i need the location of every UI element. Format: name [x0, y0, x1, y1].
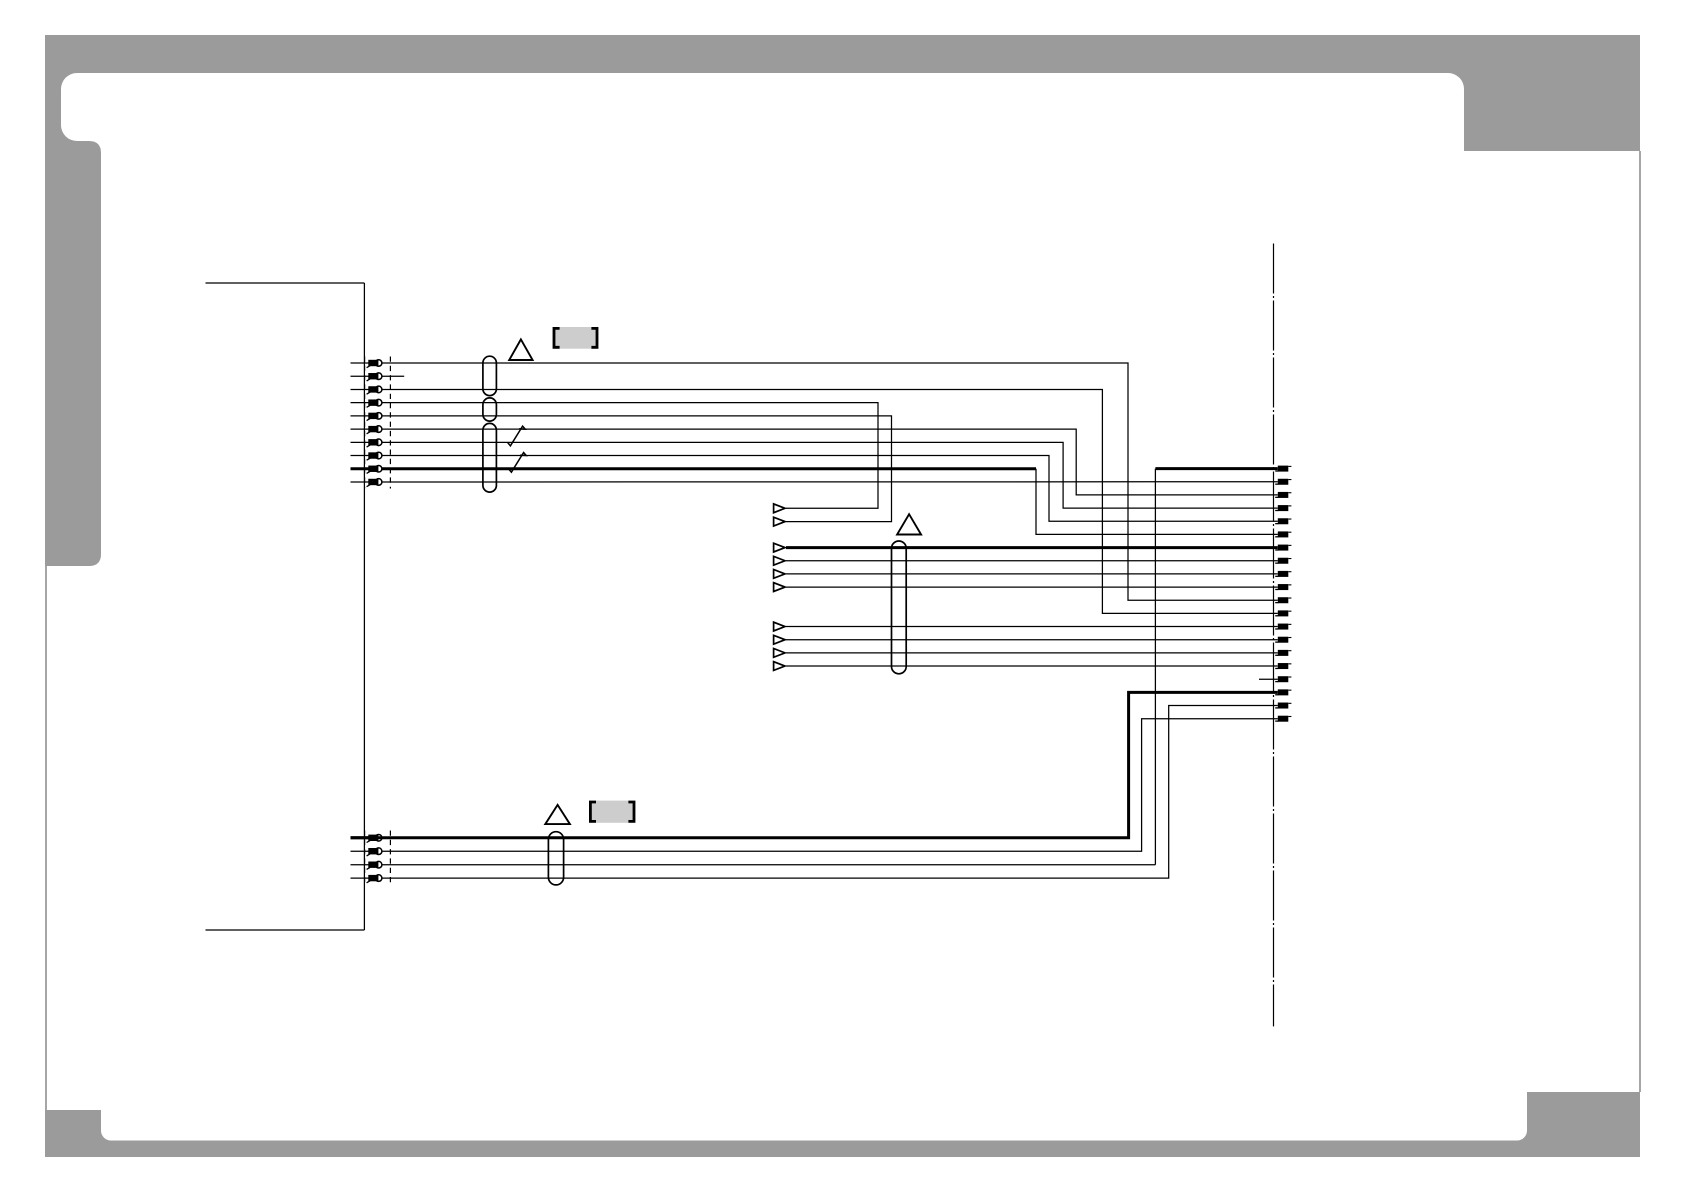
- wire A3 to J1: [786, 546, 1278, 549]
- wire CN1-9 to J1-6: [1036, 469, 1278, 535]
- connector CN1 pin 1: [351, 362, 369, 364]
- tie mark M2: [509, 453, 527, 473]
- connector CN2 dashed boundary right: [389, 831, 391, 886]
- cable bundle tie O2: [483, 398, 497, 421]
- connector CN1 dashed boundary left: [364, 357, 366, 489]
- arrow A8: [774, 635, 785, 644]
- cable bundle tie O4: [892, 541, 907, 674]
- connector CN2 pin 2: [351, 850, 369, 852]
- page frame bottom bar: [45, 1141, 1640, 1158]
- page frame left thin rule: [45, 566, 47, 1110]
- arrow A6: [774, 583, 785, 592]
- cable bundle tie O5: [548, 832, 563, 885]
- page frame top-right block: [1464, 73, 1640, 151]
- wire A4 to J1: [786, 560, 1278, 562]
- page frame left bar: [45, 73, 61, 141]
- connector CN2 pin 3: [351, 864, 369, 866]
- connector J1 pin 6: [1278, 531, 1289, 537]
- tie mark M1: [508, 426, 526, 446]
- board outline bottom edge: [206, 929, 365, 931]
- connector CN1 pin 4: [351, 402, 369, 404]
- connector J1 pin 20: [1278, 716, 1289, 722]
- warning triangle W1: [509, 339, 532, 360]
- wire J1-20 to CN2-2: [382, 719, 1278, 852]
- arrow A2: [774, 517, 785, 526]
- board outline right edge: [363, 283, 365, 930]
- board outline top edge: [206, 282, 365, 284]
- connector CN1 pin 3: [351, 388, 369, 390]
- warning triangle W3: [545, 805, 570, 824]
- connector J1 pin 18: [1278, 689, 1289, 695]
- wire J1-1 bold stub: [1155, 467, 1277, 470]
- arrow A7: [774, 622, 785, 631]
- wire CN1-3 to J1-12: [382, 389, 1278, 613]
- wire J1-19 to CN2-4: [382, 706, 1278, 879]
- wire CN1-5 to arrow A2: [382, 416, 892, 522]
- connector CN1 pin 8: [351, 455, 369, 457]
- wire J1-17 stub: [1259, 678, 1278, 680]
- wire CN1-1 to J1-11: [382, 363, 1278, 600]
- connector CN1 pin 10: [351, 481, 369, 483]
- connector J1 pin 13: [1278, 624, 1289, 630]
- wire J1-18 to CN2-1 bold: [351, 692, 1278, 837]
- arrow A9: [774, 648, 785, 657]
- connector J1 pin 2: [1278, 479, 1289, 485]
- cable bundle tie O1: [483, 356, 497, 395]
- connector CN2 pin 1: [351, 836, 369, 839]
- wire A6 to J1: [786, 586, 1278, 588]
- connector J1 pin 14: [1278, 637, 1289, 643]
- connector CN1 pin 5: [351, 415, 369, 417]
- connector J1 pin 12: [1278, 610, 1289, 616]
- connector J1 pin 9: [1278, 571, 1289, 577]
- wire CN1-2 no-connect stub: [382, 375, 405, 377]
- page frame bottom-left block: [45, 1110, 101, 1157]
- wire A5 to J1: [786, 573, 1278, 575]
- connector J1 pin 3: [1278, 492, 1289, 498]
- connector J1 pin 15: [1278, 650, 1289, 656]
- wire CN1-9 bold run: [382, 467, 1036, 470]
- arrow A5: [774, 570, 785, 579]
- connector J1 pin 16: [1278, 663, 1289, 669]
- wire CN1-8 to J1-5: [382, 456, 1278, 522]
- connector J1 pin 10: [1278, 584, 1289, 590]
- label box L1: [553, 327, 599, 349]
- arrow A10: [774, 662, 785, 671]
- wire CN1-7 to J1-4: [382, 442, 1278, 508]
- connector CN2 pin 4: [351, 877, 369, 879]
- connector J1 pin 11: [1278, 597, 1289, 603]
- connector J1 center line: [1273, 244, 1275, 1027]
- connector J1 pin 8: [1278, 558, 1289, 564]
- wire A9 to J1: [786, 652, 1278, 654]
- page frame left block: [45, 141, 101, 566]
- wire CN1-4 to arrow A1: [382, 403, 878, 509]
- connector CN1 pin 2: [351, 375, 369, 377]
- arrow A3: [774, 543, 785, 552]
- connector J1 pin 4: [1278, 505, 1289, 511]
- wire CN2-3 run: [382, 864, 1156, 866]
- label box L2: [589, 801, 635, 823]
- page frame bottom-right block: [1527, 1092, 1640, 1157]
- connector CN1 dashed boundary right: [389, 357, 391, 489]
- connector J1 pin 5: [1278, 518, 1289, 524]
- cable bundle tie O3: [483, 423, 497, 492]
- connector CN1 pin 7: [351, 441, 369, 443]
- wire A10 to J1: [786, 665, 1278, 667]
- connector J1 pin 1: [1278, 466, 1289, 472]
- connector J1 pin 17: [1278, 676, 1289, 682]
- arrow A4: [774, 556, 785, 565]
- wire J1-1 to CN2-3: [1154, 469, 1156, 865]
- page frame top bar: [45, 35, 1640, 73]
- connector CN1 pin 6: [351, 428, 369, 430]
- wire CN1-10 to J1-2: [382, 481, 1278, 483]
- arrow A1: [774, 504, 785, 513]
- connector J1 pin 19: [1278, 703, 1289, 709]
- connector CN1 pin 9: [351, 467, 369, 470]
- warning triangle W2: [897, 514, 921, 534]
- connector J1 pin 7: [1278, 545, 1289, 551]
- page frame right thin rule: [1639, 151, 1641, 1092]
- wire CN1-6 to J1-3: [382, 429, 1278, 495]
- wire A7 to J1: [786, 626, 1278, 628]
- wire A8 to J1: [786, 639, 1278, 641]
- connector CN2 dashed boundary left: [364, 831, 366, 886]
